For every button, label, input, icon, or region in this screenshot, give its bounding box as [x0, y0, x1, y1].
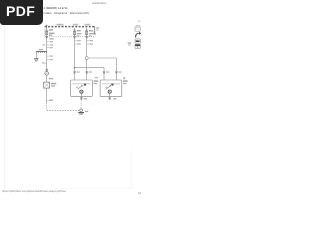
print header title: [92, 2, 106, 5]
faint page frame left edge: [4, 26, 6, 189]
wire C splice ticks: [87, 41, 89, 44]
wire A (left branch vertical): [46, 38, 48, 68]
connector pin below M2: [109, 96, 117, 99]
wire below connector X1: [46, 88, 48, 103]
small mark above toolbar icons: [138, 21, 141, 22]
faint page frame bottom edge: [60, 187, 132, 189]
connector X1 labels: [51, 83, 56, 87]
wire B splice ticks: [75, 41, 77, 44]
connector pin 3 on fuse box output C: [86, 35, 92, 38]
connector pin on M1 right input: [86, 71, 92, 74]
PDF logo box: [0, 0, 43, 25]
wire from node C to motor box M2 right pin: [88, 58, 116, 71]
junction node on wire B: [74, 67, 76, 69]
floating label right of wire C branch: [128, 42, 132, 45]
wire B labels: [77, 40, 81, 45]
fuse box F1 power bus (bold dashed rail): [45, 26, 96, 28]
ground W1 bar symbol: [78, 113, 84, 114]
wire C continuation to motor box M1 right pin: [86, 60, 88, 72]
wire below pump: [46, 75, 48, 82]
label above bus left: [57, 24, 64, 26]
wire C (fuse f3 to motors): [86, 38, 88, 56]
splice tick near y=100: [47, 99, 49, 101]
relay coil K1 (horizontal loops): [36, 51, 46, 52]
dashed ground distribution wire: [47, 109, 80, 111]
connector pin on M1 left input: [73, 71, 79, 74]
motor box M2 (fan motor with switch): [100, 80, 122, 96]
fuse f2 value labels: [77, 30, 82, 34]
label above bus right: [85, 24, 91, 26]
wire A splice ticks: [44, 42, 49, 64]
faint page frame right edge: [131, 150, 133, 188]
dotted ground lead of wire A: [46, 103, 48, 110]
wire stub into M2 right pin: [115, 74, 117, 80]
toolbar icon download: [135, 44, 140, 48]
connector X1 (boxed X): [44, 82, 50, 88]
motor box M2 reference labels: [123, 77, 128, 84]
motor box M1 reference labels: [94, 80, 99, 84]
pump/valve Y1 (circle component on wire A): [45, 71, 49, 75]
fuse box F1 left dashed edge: [44, 27, 46, 37]
document title line 2: [44, 11, 89, 15]
fuse box F1 right edge labels: [96, 27, 99, 30]
wire stub into M1 right pin: [86, 74, 88, 80]
wire from node B to motor box M2 left pin: [75, 68, 105, 72]
wire stub into M2 left pin: [103, 74, 105, 80]
wire from coil to ground: [35, 53, 37, 59]
ground W1 label: [85, 111, 88, 112]
ground point node W1 (circle): [80, 109, 83, 112]
toolbar icon report: [135, 39, 140, 44]
toolbar icon share arrow: [135, 32, 141, 38]
connector pin 2 on fuse box output B: [73, 35, 79, 38]
fuse f1 value labels: [49, 29, 55, 36]
toolbar icon fullscreen: [135, 25, 140, 31]
fuse box F1 bottom dashed boundary: [45, 36, 96, 38]
footer page number: [138, 191, 142, 195]
wire B (fuse f2 to motors): [74, 38, 76, 71]
ground (hatched triangle): [34, 59, 38, 62]
connector pin below M1: [80, 96, 87, 99]
wire C labels: [89, 40, 93, 45]
splice label: [49, 100, 53, 101]
label above bus mid: [73, 24, 79, 26]
junction node (open circle) on wire C: [85, 57, 88, 60]
footer url: [2, 190, 66, 193]
motor box M1 (fan motor with switch): [71, 80, 93, 96]
fuse f3 (terminal tick, element, lead): [85, 28, 88, 37]
dotted ground lead below M1: [80, 100, 82, 109]
fuse f1 (terminal 30 tick, element, lead): [45, 25, 48, 37]
wire label: [49, 78, 54, 79]
connector pin 1 on fuse box output A: [46, 36, 48, 38]
wire stub into M1 left pin: [74, 74, 76, 80]
document title line 1: [44, 6, 68, 10]
fuse f2 (terminal tick, element, lead): [73, 28, 76, 37]
fuse f3 value labels: [89, 30, 94, 34]
connector pin on M2 left input: [95, 71, 110, 78]
connector pin on M2 right input: [115, 71, 121, 74]
fuse box F1 right edge wire with end cap: [93, 27, 96, 34]
connector pin on wire A above pump: [46, 69, 48, 72]
relay coil K1 label: [39, 49, 44, 50]
wire A labels: [42, 38, 54, 63]
